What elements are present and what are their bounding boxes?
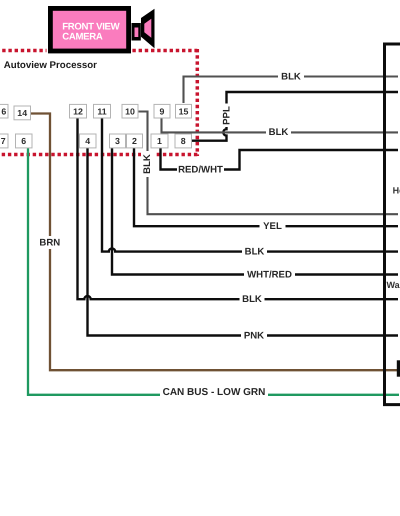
- Autoview Processor dashed box bottom border: [0, 153, 197, 157]
- label BLK (pin12 wire): [240, 294, 265, 306]
- label BLK (rotated, pin10 wire): [141, 151, 154, 177]
- wire YEL pin2 to module (black): [134, 148, 398, 227]
- svg-text:PPL: PPL: [222, 106, 233, 125]
- label BLK (pin15 wire): [278, 71, 304, 83]
- svg-text:He: He: [393, 186, 400, 196]
- svg-text:Warn: Warn: [387, 280, 400, 290]
- svg-text:RED/WHT: RED/WHT: [178, 165, 223, 176]
- svg-text:7: 7: [1, 136, 6, 146]
- svg-text:CAMERA: CAMERA: [62, 32, 103, 43]
- pin 3: [110, 134, 126, 148]
- label BRN (pin14 wire): [38, 236, 62, 249]
- svg-text:3: 3: [115, 136, 120, 146]
- svg-text:6: 6: [1, 106, 6, 116]
- label BLK (pin11 wire): [242, 246, 267, 258]
- svg-text:15: 15: [179, 106, 189, 116]
- pin 10: [122, 104, 138, 118]
- white backdrop of camera icon covering dashed border: [47, 0, 129, 57]
- svg-text:FRONT VIEW: FRONT VIEW: [62, 21, 120, 32]
- pin 15: [176, 104, 192, 118]
- pin 8: [175, 134, 192, 148]
- Autoview Processor dashed box right border: [196, 49, 200, 156]
- svg-text:10: 10: [125, 106, 135, 116]
- Autoview Processor dashed box top border: [0, 49, 197, 53]
- front view camera lens horn: [141, 9, 155, 48]
- svg-text:12: 12: [73, 106, 83, 116]
- svg-text:Autoview Processor: Autoview Processor: [4, 60, 97, 71]
- pin 12: [70, 104, 87, 118]
- svg-text:2: 2: [132, 136, 137, 146]
- svg-text:PNK: PNK: [244, 331, 264, 342]
- label YEL (pin2 wire): [260, 221, 286, 233]
- svg-text:4: 4: [85, 136, 90, 146]
- pin 2: [127, 134, 143, 148]
- svg-text:BLK: BLK: [269, 127, 289, 138]
- svg-text:14: 14: [17, 108, 27, 118]
- svg-text:CAN BUS - LOW GRN: CAN BUS - LOW GRN: [163, 387, 266, 398]
- label BLK (pin9 wire): [266, 127, 291, 139]
- label PPL (rotated, pin8 wire): [220, 104, 233, 128]
- pin 6 bottom left: [16, 134, 33, 148]
- svg-text:8: 8: [181, 136, 186, 146]
- pin 9: [154, 104, 170, 118]
- svg-text:YEL: YEL: [263, 221, 282, 232]
- svg-text:BLK: BLK: [281, 72, 301, 83]
- wire PPL pin8 to module (black, hops over BLK wire): [192, 92, 398, 141]
- wire BLK pin10 to module (gray, vertical label): [138, 112, 398, 215]
- pin 6 top left: [0, 104, 8, 118]
- svg-text:BLK: BLK: [245, 247, 265, 258]
- pin 1: [151, 134, 168, 148]
- front view camera icon body: [50, 8, 128, 51]
- pin 14: [14, 106, 31, 120]
- wire CAN BUS GRN pin6 to module (green): [28, 148, 399, 395]
- wire WHT/RED pin3 to module (black): [112, 148, 398, 275]
- pin 4: [80, 134, 97, 148]
- label RED/WHT (pin1 wire): [177, 164, 224, 176]
- pin 7: [0, 134, 8, 148]
- front view camera lens neck: [132, 23, 141, 41]
- inner connector box on BRN wire: [397, 360, 400, 376]
- wire PNK pin4 to module (black): [88, 148, 399, 336]
- svg-text:6: 6: [21, 136, 26, 146]
- svg-text:1: 1: [157, 136, 162, 146]
- module box right side: [385, 44, 400, 405]
- svg-text:9: 9: [160, 106, 165, 116]
- wire RED/WHT pin1 to module (black): [161, 148, 399, 170]
- wire BLK pin12 to module (black, hops over pin4 wire): [78, 118, 399, 300]
- pin 11: [94, 104, 111, 118]
- svg-text:BLK: BLK: [242, 294, 262, 305]
- svg-text:11: 11: [97, 106, 106, 116]
- label WHT/RED (pin3 wire): [244, 269, 295, 281]
- label PNK (pin4 wire): [241, 330, 267, 342]
- wire BRN pin14 to connector (brown): [30, 114, 398, 371]
- wire BLK pin9 to module (gray): [162, 118, 399, 133]
- svg-text:WHT/RED: WHT/RED: [247, 270, 292, 281]
- wire BLK pin15 to module (gray): [184, 77, 399, 104]
- label CAN BUS - LOW GRN (pin6 wire): [160, 387, 268, 399]
- svg-text:BRN: BRN: [39, 237, 60, 248]
- wire BLK pin11 to module (black, hops over pin3 wire): [102, 118, 398, 252]
- svg-text:BLK: BLK: [142, 154, 153, 174]
